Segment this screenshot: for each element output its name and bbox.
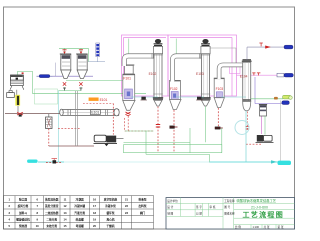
table text blobs [8, 197, 146, 228]
svg-text:16: 16 [93, 197, 96, 201]
svg-text:14: 14 [64, 218, 67, 222]
svg-text:图纸名称: 图纸名称 [224, 211, 235, 215]
svg-text:1:100: 1:100 [253, 225, 260, 229]
light cyan circle highlight [235, 121, 249, 135]
blue pump tag left [37, 75, 53, 78]
yellow-green capsule right [274, 95, 292, 99]
feeder hopper M1 [10, 75, 24, 90]
blue capsule right at condensate line [282, 101, 290, 105]
svg-text:E101: E101 [100, 98, 108, 102]
svg-text:10: 10 [36, 224, 39, 228]
svg-text:二效分离: 二效分离 [46, 218, 57, 222]
red tick on overhead line [259, 43, 262, 46]
blue capsule top right [284, 45, 293, 49]
orange highlighted tag E101 [89, 98, 108, 102]
cyclone V2 [76, 54, 87, 79]
vessel F101 stack [123, 65, 136, 110]
green drain column E103 [205, 107, 207, 143]
svg-text:真空泵机组: 真空泵机组 [104, 197, 118, 201]
svg-text:E104: E104 [240, 75, 248, 79]
red fitting at feeder [22, 72, 24, 74]
pipe: green cyclone underflow manifold [59, 87, 82, 91]
svg-text:21: 21 [125, 197, 128, 201]
pump P3 [256, 135, 274, 142]
svg-text:22: 22 [125, 204, 128, 208]
svg-text:设计单位: 设计单位 [167, 199, 178, 203]
svg-text:第 张: 第 张 [278, 225, 284, 229]
svg-text:F102: F102 [170, 87, 178, 91]
magenta battery-limit rect A [122, 35, 169, 96]
teal circulation lines [131, 96, 246, 98]
svg-text:日 期: 日 期 [196, 211, 202, 215]
svg-text:干燥机: 干燥机 [106, 224, 114, 228]
black valve under F103 [215, 108, 223, 153]
svg-text:E102: E102 [149, 72, 157, 76]
svg-text:19: 19 [93, 218, 96, 222]
svg-text:加料斗: 加料斗 [18, 211, 27, 215]
magenta battery-limit rect B [168, 35, 237, 96]
svg-text:循环泵: 循环泵 [105, 211, 114, 215]
pipe: dark feed line to pump P1 [49, 145, 94, 147]
svg-text:工艺流程图: 工艺流程图 [243, 210, 285, 219]
feed pipe to E101 [5, 113, 61, 115]
red T marks above cyclones [63, 49, 84, 51]
pump P1 [94, 135, 124, 146]
weigh flask [7, 91, 15, 98]
svg-text:23: 23 [125, 211, 128, 215]
svg-text:E103: E103 [196, 72, 204, 76]
svg-text:18: 18 [93, 211, 96, 215]
svg-text:二效加热器: 二效加热器 [45, 211, 59, 215]
svg-text:工程名称: 工程名称 [224, 199, 235, 203]
white tag box before capsule [277, 73, 284, 77]
overhead line to right edge [247, 46, 284, 48]
red T marks on vapour line [252, 73, 260, 76]
svg-text:蒸发分离室: 蒸发分离室 [44, 204, 59, 208]
svg-text:图 号: 图 号 [224, 205, 230, 209]
svg-text:审 核: 审 核 [210, 205, 216, 209]
svg-text:螺旋输送机: 螺旋输送机 [16, 218, 30, 222]
svg-text:冷凝器: 冷凝器 [76, 197, 84, 201]
svg-text:出料泵: 出料泵 [138, 204, 146, 208]
magenta vapour line to condenser label [237, 74, 278, 76]
svg-text:E101: E101 [91, 111, 99, 115]
gray line from column E103 cap to E104 [210, 48, 236, 64]
blue capsule right mid [284, 73, 293, 77]
svg-text:17: 17 [93, 204, 96, 208]
svg-text:冷凝水泵: 冷凝水泵 [105, 204, 116, 208]
svg-text:料液泵: 料液泵 [138, 197, 146, 201]
svg-text:13: 13 [64, 211, 67, 215]
svg-text:冷凝水罐: 冷凝水罐 [74, 204, 85, 208]
svg-text:结晶罐: 结晶罐 [76, 218, 84, 222]
column E102 [149, 39, 164, 106]
vessel F102 [169, 81, 181, 110]
red dashed drain column E102 [157, 107, 159, 153]
svg-text:旋风分离: 旋风分离 [17, 204, 29, 208]
red dashed drain F101 [125, 116, 154, 131]
pipe: lavender condensate line from E104 [255, 77, 282, 104]
separator S1 [259, 105, 267, 117]
green bottom header box [124, 128, 222, 163]
svg-text:末效分离: 末效分离 [45, 224, 57, 228]
red valve under F101 [125, 112, 130, 115]
svg-text:制 图: 制 图 [167, 211, 173, 215]
heat exchanger E101 [60, 109, 119, 116]
magenta small box near F103 [230, 66, 241, 74]
vessel F103 [214, 78, 225, 107]
vertical blue stream tag [96, 43, 100, 57]
svg-text:离心机: 离心机 [106, 218, 114, 222]
svg-text:母液罐: 母液罐 [76, 224, 84, 228]
equipment table bottom left [4, 196, 154, 229]
red dashed header [58, 127, 80, 129]
circulation pump under unit 1 [141, 97, 145, 100]
riser elbow F103 to E104 [219, 65, 243, 79]
column E104 [240, 60, 252, 111]
green line E104 to right capsule [251, 98, 283, 100]
svg-text:签 字: 签 字 [196, 205, 202, 209]
red marks under E104 [246, 126, 250, 129]
pipe: separator to pump P3 [264, 116, 266, 135]
svg-text:12: 12 [64, 204, 67, 208]
red rotary valve under cyclone V2 [79, 82, 82, 90]
cyclone V1 [60, 54, 71, 79]
svg-text:硫酸铵钠浓缩蒸发结晶工艺: 硫酸铵钠浓缩蒸发结晶工艺 [237, 198, 277, 203]
red dashed drain from filter [48, 129, 50, 147]
red arrow valve on overhead line [265, 46, 271, 49]
yellow highlighted level gauge [15, 95, 20, 106]
svg-text:预热器: 预热器 [19, 224, 27, 228]
riser elbow F102 to E103 [173, 53, 202, 81]
black valve on cyan line [53, 160, 57, 163]
pipe: feeder drop line [17, 90, 18, 112]
red arrowheads into cyclones [63, 52, 82, 55]
svg-text:21-J-0-600: 21-J-0-600 [251, 205, 268, 209]
pipe: blue line under cyclones [53, 75, 94, 77]
red dashes bottom right [246, 143, 262, 145]
red valve marks on E102 drain [156, 125, 160, 128]
circulation pump under unit 2 [197, 97, 201, 100]
red rotary valve under cyclone V1 [63, 82, 66, 90]
svg-text:20: 20 [93, 224, 96, 228]
svg-text:阀门: 阀门 [140, 211, 146, 215]
pipe: green feeder riser [17, 72, 32, 94]
svg-text:F103: F103 [216, 87, 224, 91]
black valve under F102 [170, 110, 178, 153]
red dashes on cyan line left [46, 162, 62, 164]
teal line E104 bottom down [245, 111, 247, 162]
green skid box left [35, 89, 58, 104]
svg-text:比 例: 比 例 [235, 225, 241, 229]
red valve on feed pipe [17, 112, 23, 116]
svg-text:共 张: 共 张 [264, 225, 270, 229]
svg-text:汽液分离: 汽液分离 [74, 211, 85, 215]
svg-text:设 计: 设 计 [167, 205, 173, 209]
magenta drop line to pump P3 [261, 116, 263, 134]
pipe: green line under cyclones [66, 80, 124, 82]
title block [166, 198, 295, 230]
riser elbow F101 to E102 [124, 53, 154, 66]
gray line right edge down [280, 100, 282, 162]
svg-text:15: 15 [64, 224, 67, 228]
red dashed drain E104 [246, 112, 248, 131]
svg-text:F101: F101 [123, 76, 131, 80]
inline filter FL1 [46, 114, 52, 129]
stub line left of cyclones [55, 63, 57, 77]
pipe: green line under feeder to F101 [33, 93, 146, 95]
pipe: green cyclone vent riser [87, 48, 89, 61]
pipe: E101 left downcomer [75, 91, 77, 146]
column E103 [196, 39, 211, 106]
red dashed pump suction [112, 104, 114, 135]
green vent risers in battery rects [129, 39, 176, 54]
vent line from E104 top [246, 47, 248, 60]
svg-text:蒸发加热器: 蒸发加热器 [44, 197, 59, 201]
green feeder vent path [16, 72, 18, 76]
pipe: green cyclone inlet manifold [59, 48, 88, 51]
svg-text:除尘器: 除尘器 [19, 197, 27, 201]
cyan product line [27, 160, 291, 166]
